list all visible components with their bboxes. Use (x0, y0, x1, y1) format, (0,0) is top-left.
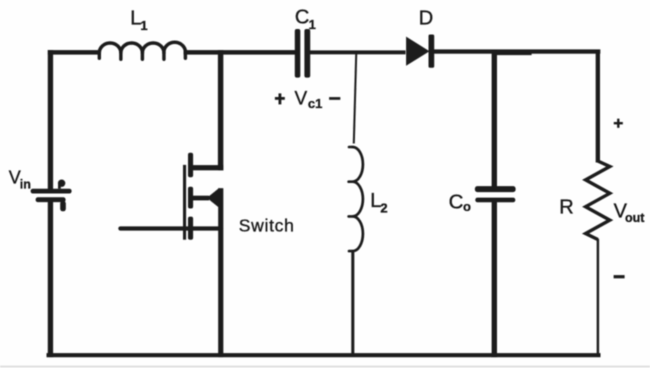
svg-text:1: 1 (309, 17, 316, 32)
wire top rail between diode and right corner (433, 49, 600, 53)
wire bottom rail (47, 353, 601, 357)
wire top rail between C1 and diode (310, 50, 406, 54)
resistor R (586, 161, 610, 240)
svg-text:Switch: Switch (239, 216, 295, 236)
svg-text:2: 2 (380, 201, 387, 216)
svg-text:C: C (449, 191, 464, 214)
wire scan overlap blob near C0 junction (493, 52, 531, 56)
inductor L1 (99, 53, 185, 60)
label + (output polarity) (614, 122, 623, 124)
wire top rail left segment (48, 50, 100, 55)
transistor switch Q1 : gate plate (183, 165, 186, 240)
svg-text:in: in (20, 177, 31, 191)
svg-text:1: 1 (140, 18, 147, 33)
capacitor C0 (475, 186, 516, 192)
transistor switch Q1 : channel bottom segment (188, 217, 193, 240)
svg-text:c1: c1 (308, 96, 322, 111)
label + Vc1 - (275, 97, 285, 100)
wire right vertical lower (thin) (597, 239, 599, 356)
svg-text:out: out (625, 211, 645, 225)
transistor switch Q1 : source vertical wire (218, 188, 223, 357)
figure bottom border shadow (0, 366, 650, 368)
transistor switch Q1 : channel top segment (188, 153, 193, 178)
battery source Vin (31, 189, 72, 194)
capacitor C1 (295, 29, 301, 78)
transistor switch Q1 : body arrow (192, 196, 209, 201)
wire left vertical upper (48, 50, 53, 190)
label - (output polarity) (614, 275, 625, 278)
wire from L2 down to bottom rail (351, 251, 354, 356)
wire from top rail down to L2 (354, 51, 357, 144)
svg-text:R: R (559, 197, 573, 219)
wire from C0 down to bottom rail (492, 202, 497, 357)
wire from top rail down to C0 (492, 50, 497, 187)
wire top rail between L1 and C1 (184, 50, 296, 55)
svg-text:C: C (295, 7, 309, 29)
transistor switch Q1 : gate and source horizontal wire (118, 226, 223, 230)
wire left vertical lower (48, 202, 53, 358)
inductor L2 (349, 147, 353, 251)
diode D (406, 37, 429, 66)
svg-text:o: o (463, 199, 471, 214)
transistor switch Q1 : channel middle segment (188, 187, 193, 209)
svg-text:D: D (419, 8, 433, 30)
transistor switch Q1 : drain vertical wire (218, 50, 223, 170)
wire right vertical upper (thick) (596, 50, 600, 162)
svg-text:V: V (295, 89, 308, 110)
transistor switch Q1 : drain stub (190, 165, 223, 170)
